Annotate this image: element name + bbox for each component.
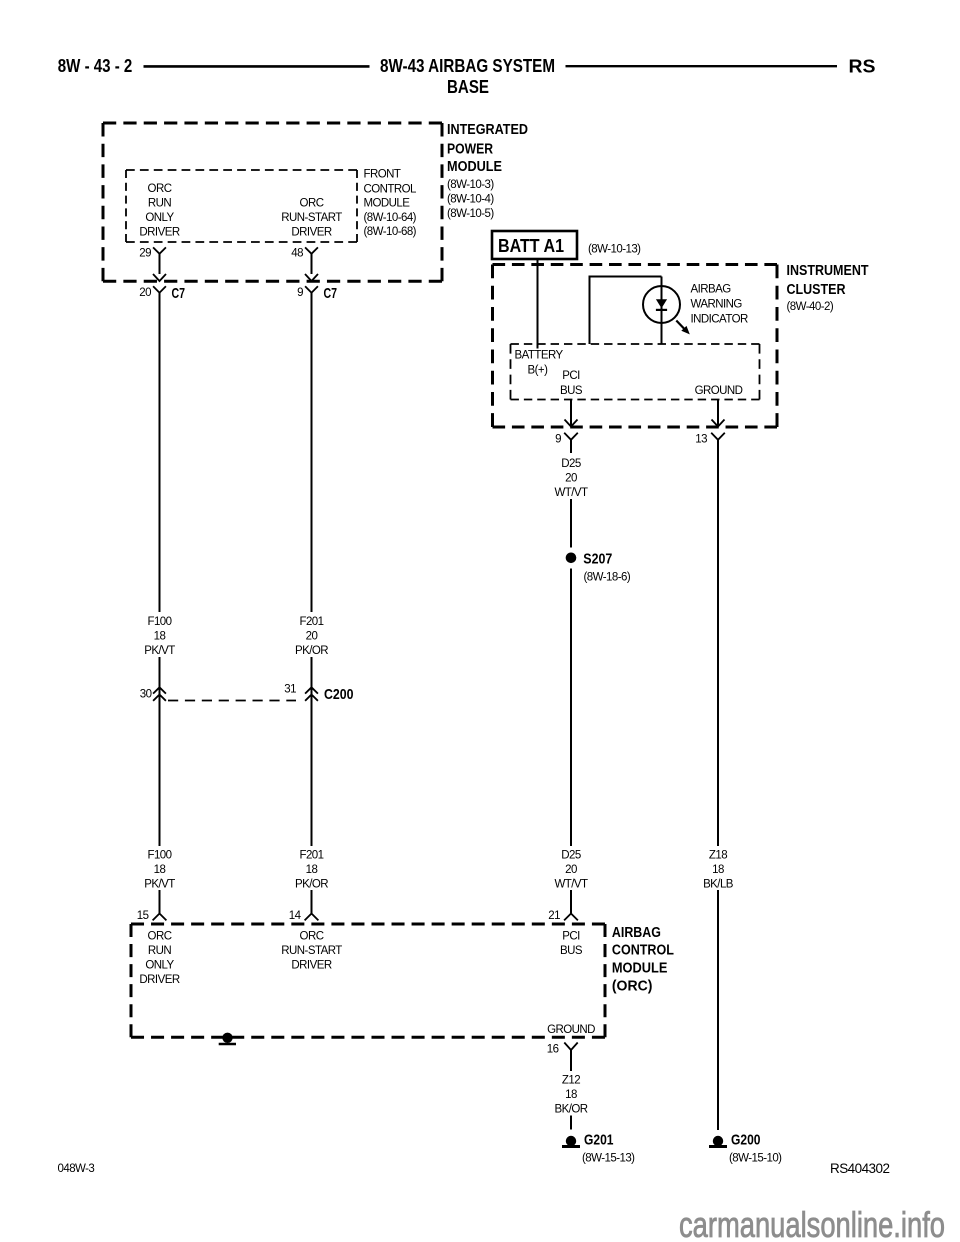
svg-text:(8W-15-10): (8W-15-10)	[729, 1153, 782, 1165]
airbag warning indicator lamp	[643, 286, 680, 323]
svg-text:D25: D25	[561, 850, 581, 862]
svg-text:RUN: RUN	[148, 945, 172, 957]
svg-text:WT/VT: WT/VT	[554, 487, 588, 499]
connector ORC pin 14	[305, 914, 319, 921]
svg-text:18: 18	[306, 864, 318, 876]
svg-text:F100: F100	[147, 850, 171, 862]
svg-text:13: 13	[695, 434, 707, 446]
indicator diode triangle	[656, 299, 667, 308]
splice S207	[566, 553, 577, 564]
battery feed box BATT A1	[492, 231, 577, 259]
svg-text:(8W-10-5): (8W-10-5)	[447, 208, 494, 220]
svg-text:20: 20	[139, 287, 151, 299]
svg-text:30: 30	[140, 689, 152, 701]
connector module pin 16	[564, 1043, 577, 1051]
wire F100 upper	[159, 293, 161, 612]
svg-text:20: 20	[565, 473, 577, 485]
connector pin 29	[153, 247, 166, 253]
connector cluster pin 9	[564, 433, 578, 440]
svg-text:PK/OR: PK/OR	[295, 879, 328, 891]
svg-text:RS: RS	[849, 57, 876, 77]
connector ORC pin 21	[564, 914, 578, 921]
svg-text:B(+): B(+)	[528, 365, 549, 377]
connector C200 pin 31	[305, 687, 318, 693]
wire D25 to ORC	[570, 890, 572, 914]
svg-text:RUN: RUN	[148, 198, 172, 210]
svg-text:PK/VT: PK/VT	[144, 879, 175, 891]
wire F201 through C200	[311, 657, 313, 846]
svg-text:18: 18	[712, 864, 724, 876]
wire F201 to ORC	[311, 890, 313, 914]
arrow PCI bus at cluster edge	[565, 420, 578, 427]
svg-text:20: 20	[306, 631, 318, 643]
svg-text:BK/LB: BK/LB	[703, 879, 734, 891]
svg-text:RS404302: RS404302	[830, 1161, 889, 1176]
svg-text:carmanualsonline.info: carmanualsonline.info	[679, 1204, 945, 1242]
wire F100 through C200	[159, 657, 161, 846]
svg-text:CONTROL: CONTROL	[364, 183, 418, 195]
svg-text:18: 18	[154, 864, 166, 876]
wire F201 upper	[311, 293, 313, 612]
wire F100 to ORC	[159, 890, 161, 914]
wire PCI bus down	[570, 400, 572, 427]
svg-text:(8W-10-13): (8W-10-13)	[588, 243, 641, 255]
svg-text:14: 14	[289, 910, 302, 922]
svg-text:(8W-18-6): (8W-18-6)	[584, 572, 631, 584]
connector ORC pin 15	[153, 914, 167, 921]
cluster internal box	[511, 343, 760, 345]
svg-text:INTEGRATED: INTEGRATED	[447, 122, 528, 138]
svg-text:D25: D25	[561, 458, 581, 470]
svg-text:GROUND: GROUND	[547, 1024, 595, 1036]
svg-text:ONLY: ONLY	[145, 960, 174, 972]
svg-text:G201: G201	[584, 1131, 614, 1148]
header rule right	[566, 65, 838, 67]
svg-text:8W - 43 - 2: 8W - 43 - 2	[58, 56, 133, 76]
svg-text:(8W-10-3): (8W-10-3)	[447, 179, 494, 191]
C200 dashed link	[168, 700, 296, 702]
svg-text:21: 21	[548, 910, 560, 922]
svg-text:ORC: ORC	[300, 198, 324, 210]
svg-text:GROUND: GROUND	[695, 385, 743, 397]
svg-text:(ORC): (ORC)	[612, 979, 653, 995]
svg-text:MODULE: MODULE	[364, 198, 411, 210]
svg-text:MODULE: MODULE	[447, 159, 502, 175]
wire cluster ground down	[717, 400, 719, 427]
svg-text:(8W-40-2): (8W-40-2)	[787, 301, 834, 313]
svg-text:F201: F201	[299, 616, 323, 628]
svg-text:ONLY: ONLY	[145, 212, 174, 224]
integrated power module box	[103, 122, 442, 125]
svg-text:PCI: PCI	[562, 370, 580, 382]
wire Z18 upper	[717, 440, 719, 846]
svg-text:CONTROL: CONTROL	[612, 943, 674, 959]
svg-text:PCI: PCI	[562, 931, 580, 943]
svg-text:15: 15	[137, 910, 149, 922]
svg-text:MODULE: MODULE	[612, 961, 668, 977]
svg-text:ORC: ORC	[300, 931, 324, 943]
wire D25 to splice	[570, 499, 572, 548]
svg-text:29: 29	[139, 248, 151, 260]
svg-text:(8W-15-13): (8W-15-13)	[582, 1153, 635, 1165]
svg-text:INSTRUMENT: INSTRUMENT	[787, 263, 869, 279]
svg-text:BUS: BUS	[560, 385, 583, 397]
svg-text:BK/OR: BK/OR	[554, 1104, 587, 1116]
svg-text:(8W-10-4): (8W-10-4)	[447, 194, 494, 206]
svg-text:(8W-10-68): (8W-10-68)	[364, 226, 417, 238]
svg-text:BUS: BUS	[560, 945, 583, 957]
svg-text:F100: F100	[147, 616, 171, 628]
svg-text:BATT A1: BATT A1	[498, 236, 564, 256]
connector C7 pin 20	[153, 286, 166, 292]
svg-text:S207: S207	[583, 550, 612, 567]
svg-text:Z18: Z18	[709, 850, 727, 862]
svg-text:DRIVER: DRIVER	[139, 974, 179, 986]
svg-text:8W-43 AIRBAG SYSTEM: 8W-43 AIRBAG SYSTEM	[380, 56, 555, 76]
svg-text:DRIVER: DRIVER	[291, 227, 331, 239]
svg-text:ORC: ORC	[148, 931, 172, 943]
svg-text:RUN-START: RUN-START	[281, 212, 342, 224]
wire Z12 stub	[570, 1050, 572, 1071]
svg-text:FRONT: FRONT	[364, 168, 401, 180]
svg-text:F201: F201	[299, 850, 323, 862]
wire pin29 down	[159, 254, 161, 274]
svg-text:(8W-10-64): (8W-10-64)	[364, 212, 417, 224]
svg-text:BATTERY: BATTERY	[515, 350, 564, 362]
svg-text:G200: G200	[731, 1131, 761, 1148]
arrow into IPM connector C7 pin 20	[153, 274, 166, 281]
wire D25 lower	[570, 569, 572, 847]
airbag control module box	[131, 923, 605, 926]
svg-text:31: 31	[284, 684, 296, 696]
svg-text:AIRBAG: AIRBAG	[691, 284, 732, 296]
connector C200 pin 30	[153, 687, 166, 693]
svg-text:WT/VT: WT/VT	[554, 879, 588, 891]
front control module inner box	[126, 169, 357, 171]
svg-text:WARNING: WARNING	[691, 299, 743, 311]
svg-text:18: 18	[565, 1089, 577, 1101]
svg-text:48: 48	[291, 248, 303, 260]
connector C7 pin 9	[305, 286, 318, 292]
indicator arrow	[676, 321, 684, 329]
svg-text:AIRBAG: AIRBAG	[612, 925, 661, 941]
svg-text:9: 9	[555, 434, 561, 446]
svg-text:DRIVER: DRIVER	[291, 960, 331, 972]
svg-text:PK/VT: PK/VT	[144, 645, 175, 657]
svg-text:ORC: ORC	[148, 183, 172, 195]
ground G200	[713, 1136, 723, 1146]
wire Z12 to ground	[570, 1116, 572, 1130]
svg-text:9: 9	[297, 287, 303, 299]
svg-text:BASE: BASE	[447, 77, 489, 97]
instrument cluster box	[493, 263, 778, 266]
svg-text:C200: C200	[324, 686, 354, 703]
indicator diode bar	[656, 309, 667, 311]
svg-text:C7: C7	[324, 285, 338, 302]
arrow ground at cluster edge	[712, 420, 725, 427]
connector cluster pin 13	[711, 433, 725, 440]
svg-text:RUN-START: RUN-START	[281, 945, 342, 957]
svg-text:Z12: Z12	[562, 1075, 580, 1087]
svg-text:CLUSTER: CLUSTER	[787, 282, 846, 298]
svg-text:INDICATOR: INDICATOR	[691, 314, 748, 326]
svg-text:048W-3: 048W-3	[58, 1163, 95, 1175]
ground G201	[566, 1136, 576, 1146]
svg-text:POWER: POWER	[447, 142, 493, 158]
wire PCI to indicator (L shape)	[590, 277, 662, 345]
svg-text:18: 18	[154, 631, 166, 643]
svg-text:DRIVER: DRIVER	[139, 227, 179, 239]
connector pin 48	[305, 247, 318, 253]
svg-text:16: 16	[547, 1044, 559, 1056]
svg-text:20: 20	[565, 864, 577, 876]
case ground tab on module	[222, 1033, 232, 1043]
wire Z18 to ground	[717, 890, 719, 1130]
svg-text:PK/OR: PK/OR	[295, 645, 328, 657]
header rule left	[144, 65, 370, 68]
wire pin48 down	[311, 254, 313, 274]
wire pin 9 stub	[570, 440, 572, 453]
wire indicator lamp vertical	[661, 277, 663, 345]
wire BATT A1 to battery B(+)	[537, 260, 539, 349]
arrow into IPM connector C7 pin 9	[305, 274, 318, 281]
svg-text:C7: C7	[172, 285, 186, 302]
